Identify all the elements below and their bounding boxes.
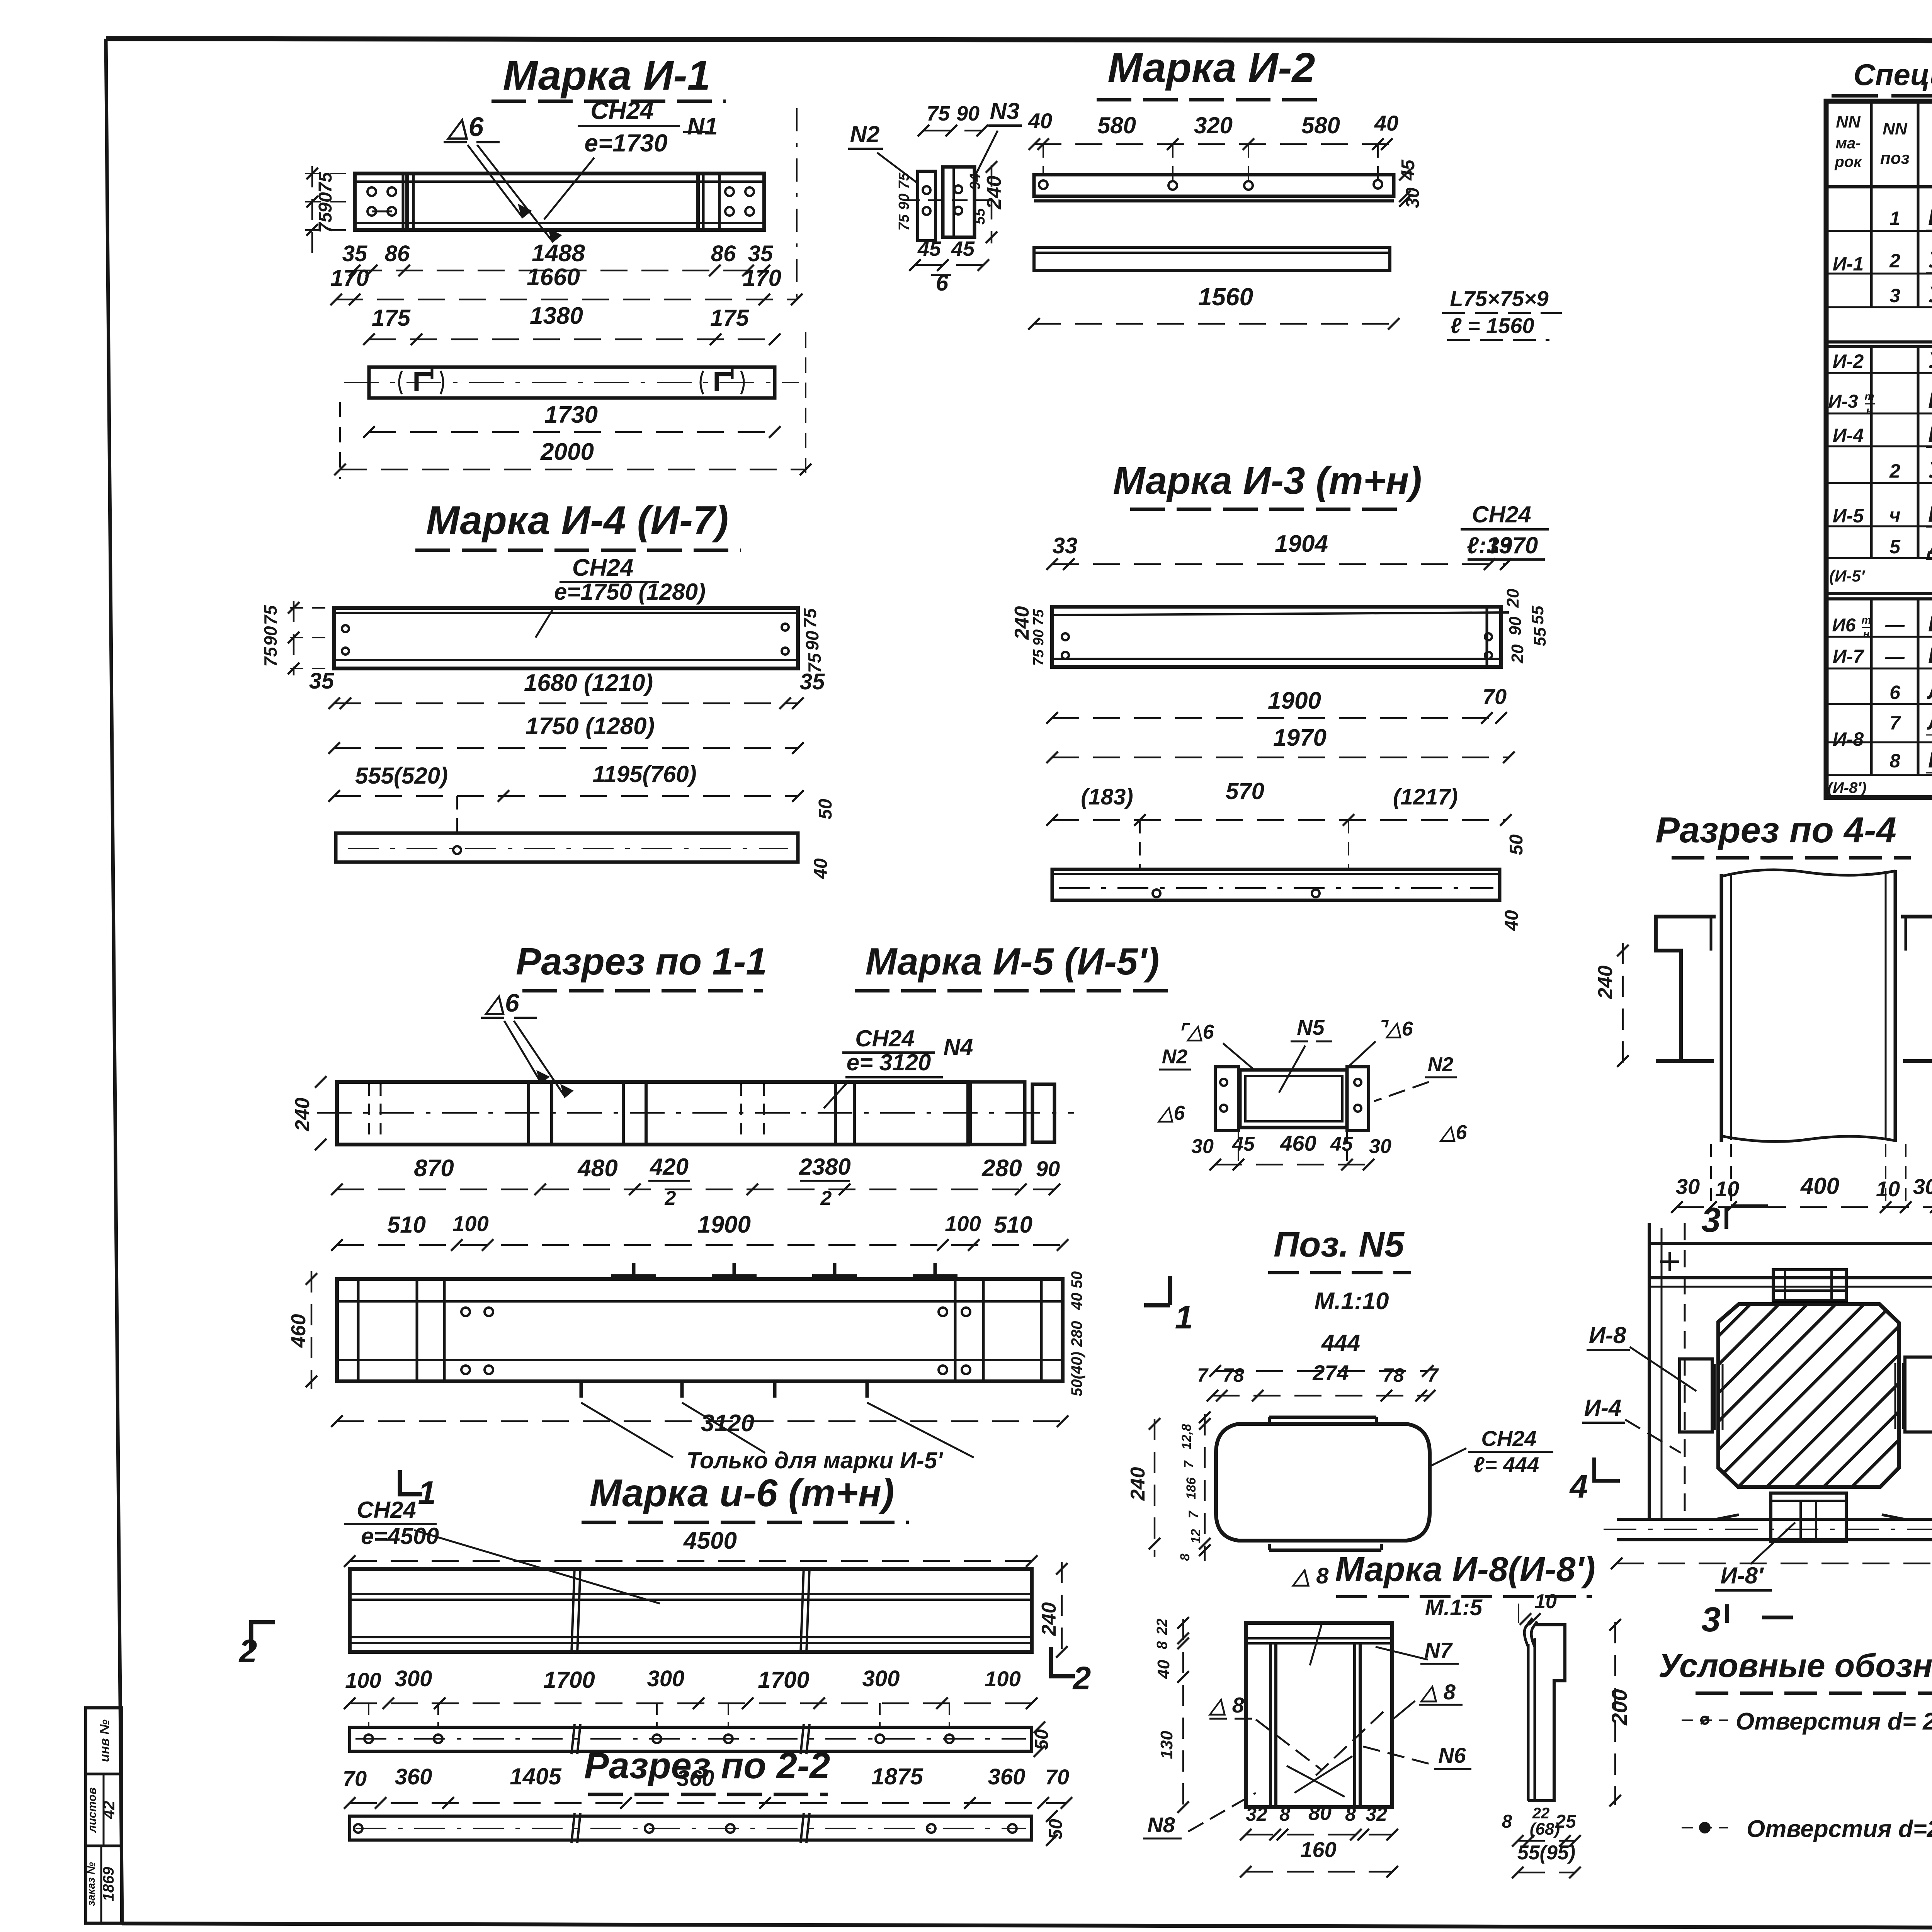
svg-text:45: 45 (1330, 1133, 1353, 1155)
svg-text:△ 8: △ 8 (1291, 1563, 1329, 1588)
left clamp И-8 (assembly) (1680, 1359, 1712, 1432)
svg-text:12: 12 (1189, 1529, 1203, 1544)
vertical extension line right of И-1 (796, 108, 798, 305)
svg-text:32: 32 (1366, 1803, 1387, 1825)
svg-text:45: 45 (917, 237, 941, 260)
svg-text:40: 40 (811, 858, 831, 879)
svg-text:300: 300 (862, 1666, 900, 1691)
svg-text:2: 2 (1072, 1660, 1091, 1696)
svg-text:NN: NN (1836, 112, 1861, 131)
svg-text:(И-5′: (И-5′ (1829, 567, 1866, 585)
svg-text:300: 300 (647, 1666, 685, 1691)
svg-text:2: 2 (1889, 460, 1900, 482)
svg-text:—: — (1885, 646, 1905, 667)
svg-text:N7: N7 (1424, 1638, 1453, 1662)
svg-text:1700: 1700 (543, 1667, 595, 1693)
svg-text:Марка И-1: Марка И-1 (503, 52, 710, 99)
svg-text:75: 75 (315, 172, 336, 193)
svg-text:т: т (1862, 614, 1871, 626)
svg-text:86: 86 (385, 241, 410, 266)
svg-text:Марка И-5 (И-5'): Марка И-5 (И-5') (866, 940, 1160, 983)
section marker 4 left (1594, 1458, 1620, 1481)
svg-text:1195(760): 1195(760) (592, 761, 696, 787)
svg-text:N2: N2 (1428, 1053, 1454, 1076)
svg-text:50(40): 50(40) (1068, 1352, 1085, 1396)
svg-text:N1: N1 (687, 113, 718, 140)
svg-text:280: 280 (981, 1155, 1022, 1182)
svg-text:40: 40 (1374, 111, 1398, 135)
svg-text:33: 33 (1053, 533, 1078, 558)
svg-text:Швеллер: Швеллер (1928, 643, 1932, 668)
svg-text:100: 100 (985, 1667, 1020, 1691)
spec table column lines (1870, 101, 1873, 307)
svg-text:(183): (183) (1081, 784, 1133, 810)
svg-text:Разрез по 1-1: Разрез по 1-1 (516, 940, 767, 983)
svg-text:3: 3 (1889, 285, 1900, 306)
svg-text:И-4: И-4 (1833, 425, 1864, 446)
svg-text:Уголок: Уголок (1928, 282, 1932, 307)
svg-text:△6: △6 (1439, 1121, 1468, 1144)
svg-text:460: 460 (287, 1314, 310, 1348)
bottom clamp И-8' (assembly) (1771, 1493, 1846, 1542)
svg-text:Уголок: Уголок (1928, 247, 1932, 272)
svg-text:70: 70 (343, 1766, 367, 1791)
svg-text:70: 70 (1483, 684, 1507, 709)
svg-text:СН24: СН24 (1472, 502, 1531, 527)
svg-text:240: 240 (983, 176, 1005, 210)
svg-text:e=1730: e=1730 (584, 129, 667, 157)
И-8 front view (1246, 1623, 1392, 1807)
svg-text:240: 240 (1038, 1602, 1060, 1636)
svg-text:35: 35 (800, 669, 825, 694)
svg-text:И-3: И-3 (1828, 391, 1858, 412)
svg-text:10: 10 (1876, 1177, 1900, 1201)
svg-text:И-1: И-1 (1833, 253, 1864, 275)
frame channels И-4 sides (assembly) (1648, 1223, 1651, 1519)
svg-text:И-2: И-2 (1833, 350, 1864, 372)
svg-text:Отверстия d= 23 мм: Отверстия d= 23 мм (1736, 1708, 1932, 1735)
diaphragm verticals in Разрез 1-1 (368, 1084, 370, 1142)
bolt holes И-5 plan (461, 1308, 470, 1316)
svg-text:240: 240 (1127, 1467, 1149, 1501)
svg-text:ℓ= 444: ℓ= 444 (1473, 1452, 1539, 1477)
svg-text:75: 75 (260, 646, 281, 667)
svg-text:320: 320 (1194, 112, 1233, 138)
svg-text:20: 20 (1503, 588, 1522, 608)
svg-text:55: 55 (1528, 605, 1547, 624)
bottom bar И-1 (assembly) (1617, 1518, 1932, 1521)
svg-text:2000: 2000 (540, 439, 594, 465)
bar И-4 bottom flange view (336, 833, 798, 862)
svg-text:Марка и-6 (т+н): Марка и-6 (т+н) (590, 1471, 895, 1515)
sheet border frame (106, 39, 1932, 42)
corner gussets bottom (assembly) (1692, 1515, 1739, 1519)
svg-text:30: 30 (1403, 187, 1423, 208)
svg-text:8: 8 (1889, 750, 1900, 772)
svg-text:7: 7 (1427, 1364, 1439, 1386)
svg-text:35: 35 (342, 241, 367, 266)
svg-text:2: 2 (820, 1187, 832, 1209)
svg-text:1875: 1875 (871, 1764, 923, 1789)
svg-text:175: 175 (372, 305, 411, 331)
svg-text:ч: ч (1889, 504, 1900, 526)
svg-text:2: 2 (665, 1187, 676, 1209)
svg-text:90: 90 (1506, 616, 1525, 635)
svg-text:СН24: СН24 (357, 1497, 416, 1523)
svg-text:90: 90 (260, 626, 281, 646)
svg-text:75: 75 (896, 214, 912, 231)
svg-text:1900: 1900 (1268, 687, 1321, 714)
svg-text:86: 86 (711, 241, 736, 266)
svg-text:55(95): 55(95) (1517, 1842, 1575, 1864)
svg-text:Условные обозначения:: Условные обозначения: (1658, 1647, 1932, 1684)
svg-text:Марка И-2: Марка И-2 (1107, 44, 1315, 91)
svg-text:555(520): 555(520) (355, 763, 448, 789)
legend hole d=28 symbol (1682, 1827, 1728, 1828)
section marker 2 right (1051, 1647, 1075, 1676)
right clamp И-8 (assembly) (1905, 1357, 1932, 1432)
svg-text:И-7: И-7 (1833, 646, 1865, 667)
svg-text:42: 42 (100, 1801, 118, 1820)
svg-text:30: 30 (1913, 1174, 1932, 1199)
svg-text:И-8′: И-8′ (1721, 1563, 1765, 1588)
svg-text:1730: 1730 (544, 401, 598, 428)
svg-text:1: 1 (1175, 1299, 1193, 1335)
svg-text:3: 3 (1701, 1201, 1721, 1240)
svg-text:△6: △6 (1157, 1102, 1185, 1124)
svg-text:△ 8: △ 8 (1208, 1693, 1245, 1717)
angle bar И-2 side view (1034, 247, 1390, 270)
sidebar box (86, 1708, 122, 1923)
svg-text:И-5: И-5 (1833, 505, 1864, 527)
svg-text:175: 175 (710, 305, 750, 331)
svg-text:100: 100 (345, 1668, 381, 1692)
svg-text:360: 360 (677, 1766, 714, 1791)
beam И-1 bottom flange view (369, 367, 775, 398)
svg-text:И-8: И-8 (1833, 728, 1864, 750)
svg-text:32: 32 (1246, 1803, 1267, 1825)
svg-text:40: 40 (1028, 109, 1052, 133)
svg-text:СН24: СН24 (855, 1026, 914, 1051)
svg-text:75: 75 (1031, 609, 1047, 626)
section marker 2 left (251, 1622, 275, 1651)
beam Марка И-5 plan view (337, 1279, 1063, 1381)
svg-text:—: — (1885, 614, 1905, 636)
break marks И-6 (571, 1567, 575, 1653)
svg-text:заказ №: заказ № (85, 1862, 97, 1906)
svg-text:75: 75 (896, 172, 912, 189)
svg-text:90: 90 (956, 102, 980, 125)
svg-text:Швеллер: Швеллер (1928, 502, 1932, 527)
svg-text:78: 78 (1223, 1364, 1244, 1386)
angle bar И-2 plan view with holes (1034, 175, 1394, 196)
svg-text:рок: рок (1834, 153, 1862, 170)
bolt holes left end plate И-1 (367, 187, 376, 196)
svg-text:55: 55 (972, 208, 988, 224)
svg-text:90: 90 (802, 631, 822, 651)
svg-text:580: 580 (1301, 112, 1340, 138)
plates detail N2/N3 (gusset pair) (918, 171, 935, 241)
svg-text:Уголок: Уголок (1928, 457, 1932, 483)
section marker 1 bottom-left (400, 1470, 422, 1494)
svg-text:Швеллер: Швеллер (1928, 611, 1932, 636)
top band И-2 (assembly) (1649, 1242, 1932, 1245)
svg-text:480: 480 (577, 1155, 617, 1182)
svg-text:Только для марки И-5': Только для марки И-5' (686, 1447, 943, 1473)
svg-text:240: 240 (1011, 606, 1033, 640)
svg-text:75: 75 (1031, 649, 1047, 666)
svg-text:ма-: ма- (1835, 135, 1861, 152)
svg-text:200: 200 (1607, 1689, 1631, 1725)
svg-text:1970: 1970 (1273, 724, 1327, 751)
svg-text:И6: И6 (1832, 615, 1856, 636)
svg-text:Швеллер: Швеллер (1928, 388, 1932, 413)
svg-text:7: 7 (1889, 712, 1901, 734)
svg-text:70: 70 (1045, 1765, 1069, 1789)
svg-text:н: н (1863, 628, 1870, 640)
svg-text:листов: листов (86, 1787, 99, 1833)
svg-text:870: 870 (414, 1155, 454, 1182)
svg-text:280: 280 (1068, 1321, 1085, 1347)
svg-text:СН24: СН24 (590, 97, 654, 124)
svg-text:Марка И-3 (т+н): Марка И-3 (т+н) (1113, 459, 1422, 502)
svg-text:(И-8′): (И-8′) (1828, 779, 1867, 796)
left clamp bracket on 4-4 (1656, 917, 1716, 1061)
beam Марка И-6 side view (350, 1569, 1032, 1652)
svg-text:40 50: 40 50 (1068, 1271, 1085, 1310)
svg-text:360: 360 (988, 1764, 1026, 1789)
section marker 1 right (1168, 1276, 1172, 1305)
svg-text:⌝△6: ⌝△6 (1377, 1018, 1413, 1040)
svg-text:2: 2 (238, 1633, 257, 1669)
svg-text:5: 5 (1889, 536, 1901, 558)
svg-text:СН24: СН24 (572, 554, 634, 581)
svg-text:М.1:10: М.1:10 (1315, 1288, 1389, 1315)
svg-text:N5: N5 (1297, 1015, 1325, 1039)
svg-text:240: 240 (291, 1098, 314, 1132)
svg-text:Швеллер: Швеллер (1928, 422, 1932, 447)
svg-text:420: 420 (650, 1154, 689, 1180)
svg-text:3: 3 (1701, 1600, 1721, 1639)
svg-text:460: 460 (1280, 1131, 1316, 1155)
beam Разрез по 1-1 (И-5 channel side view) (337, 1082, 968, 1145)
svg-text:130: 130 (1157, 1731, 1176, 1759)
svg-text:40: 40 (1502, 910, 1522, 931)
svg-text:1900: 1900 (697, 1211, 751, 1238)
svg-text:N2: N2 (850, 121, 880, 147)
svg-text:1660: 1660 (527, 264, 580, 291)
svg-text:7: 7 (1186, 1510, 1201, 1518)
svg-text:1488: 1488 (532, 240, 585, 267)
svg-text:N6: N6 (1438, 1743, 1466, 1767)
svg-text:300: 300 (395, 1666, 432, 1691)
svg-text:50: 50 (1506, 834, 1527, 855)
svg-text:△ 8: △ 8 (1419, 1680, 1456, 1704)
svg-text:78: 78 (1383, 1364, 1404, 1386)
svg-text:2380: 2380 (799, 1154, 850, 1180)
svg-text:Уголок: Уголок (1928, 348, 1932, 373)
svg-text:75: 75 (800, 608, 820, 628)
bar И-6 flange view 2 (Разрез 2-2) (350, 1816, 1032, 1840)
diaphragm verticals in И-5 plan (357, 1279, 360, 1381)
spec table row lines (1826, 230, 1932, 232)
svg-text:СН24: СН24 (1481, 1426, 1536, 1451)
channel profile Поз N5 (СН24 section) (1216, 1424, 1430, 1541)
svg-text:8: 8 (1279, 1803, 1290, 1825)
svg-text:e= 3120: e= 3120 (847, 1049, 931, 1075)
svg-text:35: 35 (309, 668, 334, 694)
weld angle marks on flange view (417, 374, 432, 391)
svg-text:170: 170 (743, 265, 781, 291)
svg-text:т: т (1865, 390, 1874, 402)
svg-text:⌜△6: ⌜△6 (1178, 1021, 1214, 1043)
svg-text:1904: 1904 (1275, 531, 1328, 557)
svg-text:8: 8 (1154, 1641, 1170, 1650)
bar И-3 flange view (1052, 869, 1500, 900)
svg-text:1560: 1560 (1198, 283, 1253, 311)
svg-text:ℓ = 1560: ℓ = 1560 (1450, 313, 1534, 338)
svg-text:e=1750 (1280): e=1750 (1280) (554, 579, 706, 605)
beam Марка И-1 top view (channel СН24) (355, 173, 764, 230)
bar И-6 flange view 1 (350, 1727, 1032, 1751)
weld lines right end И-1 (696, 175, 700, 229)
svg-text:22: 22 (1154, 1619, 1170, 1635)
svg-text:Разрез по 4-4: Разрез по 4-4 (1655, 810, 1896, 850)
svg-text:8: 8 (1502, 1811, 1512, 1832)
svg-text:274: 274 (1312, 1361, 1349, 1385)
svg-text:30: 30 (1369, 1135, 1391, 1158)
svg-text:Марка И-8(И-8'): Марка И-8(И-8') (1335, 1550, 1595, 1589)
svg-text:Поз. N5: Поз. N5 (1274, 1225, 1405, 1264)
svg-text:20: 20 (1508, 644, 1527, 663)
svg-text:400: 400 (1800, 1173, 1839, 1199)
svg-text:1405: 1405 (510, 1764, 562, 1789)
svg-text:2: 2 (1889, 250, 1900, 272)
svg-text:Спецификация металла ВМ Ст 3: Спецификация металла ВМ Ст 3 ГОСТ 380-60 (1854, 58, 1932, 92)
svg-text:1380: 1380 (530, 303, 583, 329)
svg-text:1869: 1869 (100, 1867, 117, 1901)
pile Разрез 4-4 (timber pile elevation) (1721, 870, 1895, 876)
svg-text:75: 75 (260, 605, 281, 625)
top clamp И-8 (assembly) (1773, 1270, 1846, 1300)
svg-text:7: 7 (1197, 1364, 1209, 1386)
svg-text:N4: N4 (944, 1034, 973, 1060)
svg-text:7: 7 (1182, 1460, 1196, 1468)
svg-text:1700: 1700 (758, 1667, 809, 1693)
svg-text:△6: △6 (446, 112, 484, 142)
svg-text:N8: N8 (1147, 1813, 1175, 1837)
svg-text:N3: N3 (990, 98, 1020, 124)
svg-text:510: 510 (387, 1212, 426, 1238)
width dimension under assembly (1617, 1563, 1932, 1565)
svg-text:12,8: 12,8 (1179, 1424, 1194, 1449)
beam Марка И-3 side view (1052, 607, 1501, 667)
svg-text:90: 90 (1031, 629, 1047, 646)
svg-text:90: 90 (1036, 1156, 1060, 1181)
svg-text:510: 510 (994, 1212, 1032, 1238)
svg-text:186: 186 (1184, 1477, 1199, 1500)
svg-text:1: 1 (1889, 207, 1900, 229)
svg-text:55: 55 (1531, 627, 1549, 646)
svg-text:4500: 4500 (683, 1527, 737, 1554)
svg-text:170: 170 (330, 265, 369, 291)
svg-text:10: 10 (1534, 1590, 1557, 1613)
svg-text:33: 33 (1487, 533, 1512, 558)
svg-text:М.1:5: М.1:5 (1425, 1595, 1483, 1620)
svg-text:Ребро: Ребро (1928, 747, 1932, 772)
svg-text:Отверстия d=28мм: Отверстия d=28мм (1747, 1816, 1932, 1842)
svg-text:поз: поз (1880, 149, 1910, 168)
svg-text:инв №: инв № (97, 1719, 112, 1762)
svg-text:75: 75 (927, 102, 950, 125)
svg-text:8: 8 (1178, 1553, 1192, 1561)
svg-text:6: 6 (1889, 682, 1901, 703)
svg-text:10: 10 (1715, 1177, 1739, 1201)
weld leader crosses on И-8 front (1287, 1766, 1345, 1797)
svg-text:100: 100 (945, 1211, 981, 1236)
svg-text:NN: NN (1883, 119, 1908, 138)
svg-text:35: 35 (748, 241, 773, 266)
svg-text:н: н (1866, 405, 1873, 417)
small weld tabs on top edge И-5 (632, 1263, 636, 1279)
hatched pile square (assembly) (1718, 1304, 1899, 1487)
plus marks on И-2 band (1660, 1260, 1679, 1263)
svg-text:1: 1 (418, 1475, 436, 1511)
legend hole d=23 symbol (1682, 1719, 1728, 1721)
svg-text:50: 50 (815, 799, 836, 820)
И-5 cross section drawing (1215, 1067, 1238, 1131)
svg-text:80: 80 (1308, 1801, 1332, 1825)
svg-text:4: 4 (1569, 1468, 1588, 1505)
И-8 side view (bent plate) (1524, 1618, 1532, 1647)
svg-text:94: 94 (967, 173, 983, 190)
bolt holes right end plate И-1 (725, 187, 734, 196)
svg-text:e=4500: e=4500 (361, 1523, 439, 1549)
svg-text:160: 160 (1300, 1837, 1336, 1862)
svg-text:Марка И-4 (И-7): Марка И-4 (И-7) (426, 498, 729, 543)
svg-text:30: 30 (1191, 1135, 1214, 1158)
spec table outer border (1826, 101, 1932, 798)
svg-text:360: 360 (395, 1764, 432, 1789)
svg-text:90: 90 (896, 194, 912, 210)
svg-text:3120: 3120 (701, 1410, 754, 1437)
svg-text:40: 40 (1154, 1660, 1173, 1679)
right clamp bracket on 4-4 (1901, 917, 1932, 1061)
beam Марка И-4 side view (334, 608, 798, 668)
svg-text:1680 (1210): 1680 (1210) (524, 670, 653, 696)
svg-text:8: 8 (1345, 1803, 1356, 1825)
svg-text:570: 570 (1226, 778, 1264, 804)
svg-text:444: 444 (1321, 1330, 1360, 1356)
svg-text:(1217): (1217) (1393, 784, 1458, 810)
svg-text:45: 45 (951, 237, 975, 260)
svg-text:L75×75×9: L75×75×9 (1450, 286, 1548, 311)
svg-text:25: 25 (1555, 1811, 1577, 1832)
svg-text:И-8: И-8 (1589, 1322, 1626, 1348)
svg-text:30: 30 (1676, 1174, 1700, 1199)
svg-text:1750 (1280): 1750 (1280) (526, 713, 655, 740)
svg-text:100: 100 (452, 1211, 488, 1236)
centerline Разрез 1-1 (317, 1112, 1074, 1114)
svg-text:Швеллер: Швеллер (1928, 205, 1932, 230)
small weld tabs on bottom edge И-5 (580, 1381, 583, 1398)
svg-text:45: 45 (1232, 1133, 1255, 1155)
svg-text:И-4: И-4 (1584, 1395, 1622, 1421)
svg-text:240: 240 (1594, 966, 1617, 1000)
svg-text:N2: N2 (1162, 1046, 1188, 1068)
svg-text:△6: △6 (484, 988, 520, 1017)
svg-text:580: 580 (1097, 112, 1136, 138)
